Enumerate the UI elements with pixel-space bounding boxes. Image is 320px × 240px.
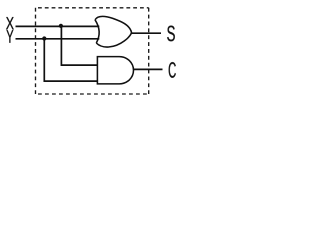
- output label C: [169, 62, 176, 78]
- wire: AND output to C: [133, 68, 162, 70]
- dashed border right edge: [148, 8, 150, 94]
- AND gate (carry): [97, 57, 133, 84]
- input label X: [6, 17, 14, 29]
- output label S: [167, 26, 175, 42]
- wire: Y input to XOR gate: [16, 38, 100, 40]
- dashed border top edge: [36, 7, 149, 9]
- junction on X line: [59, 24, 63, 28]
- wire: XOR output to S: [131, 32, 161, 34]
- dashed border bottom edge: [36, 93, 149, 95]
- input label Y: [7, 30, 14, 43]
- wire: X branch down to AND gate: [61, 26, 97, 65]
- wire: X input to XOR gate: [16, 25, 100, 27]
- dashed border left edge: [35, 8, 37, 94]
- junction on Y line: [42, 36, 46, 40]
- XOR gate (sum): [95, 17, 132, 48]
- wire: Y branch down to AND gate: [44, 39, 97, 81]
- dashed enclosure box: [36, 8, 149, 94]
